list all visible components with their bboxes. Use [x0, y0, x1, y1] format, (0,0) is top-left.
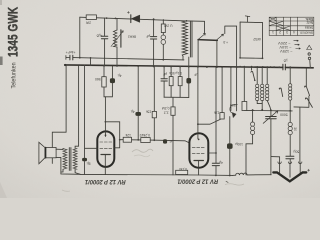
capacitor C9 blob on row: [163, 139, 167, 143]
switch S1 lever b: [217, 34, 224, 40]
wire speaker leads: [56, 149, 80, 174]
wire T2 primary bottom: [75, 169, 80, 174]
inductor L4: [257, 67, 262, 104]
capacitor C1 input series on thin rail: [70, 55, 73, 60]
wire right column: [294, 96, 309, 107]
wire bottom return rail: [80, 174, 232, 175]
tube V2 grid dashes: [192, 148, 204, 154]
wire vertical to C2: [104, 18, 106, 66]
inductor L2 small loops: [162, 33, 164, 60]
capacitor C14: [286, 156, 294, 159]
resistor R1 top inline: [86, 15, 96, 20]
inductor L5: [262, 67, 271, 110]
wire switch risers: [198, 40, 217, 68]
node: [106, 17, 108, 19]
wire V2 cathode lead: [198, 161, 200, 175]
node: [162, 59, 164, 61]
resistor R9 vertical: [171, 107, 175, 115]
plus mark near diode: [127, 11, 129, 13]
capacitor C6 blob electrolytic: [82, 158, 87, 161]
bus left end blob: [64, 64, 66, 66]
resistor R10 vertical: [220, 113, 224, 119]
wire cathode branch: [85, 65, 98, 174]
inductor L1 iron core tuned: [113, 30, 117, 47]
wire short link: [90, 58, 92, 66]
wire link upper right: [225, 26, 237, 66]
node bus: [289, 66, 291, 68]
wire V1 cathode lead: [104, 155, 106, 175]
wire P1 right riser: [236, 67, 238, 110]
node on thin rail: [79, 57, 81, 59]
antenna rail: [240, 21, 262, 24]
node: [197, 123, 199, 125]
wire group bottoms: [164, 97, 189, 107]
resistor R7 inline: [141, 138, 150, 143]
wire T2 sec top to speaker: [61, 149, 63, 173]
switch S1 lever a: [198, 33, 205, 39]
resistor R3 560 vertical: [104, 66, 105, 97]
inductor L6 labelled 30: [289, 111, 291, 156]
chassis ground chevron: [273, 172, 306, 181]
wire C5 legs: [105, 66, 112, 97]
node: [153, 139, 155, 141]
resistor R8 0.1M inline: [176, 170, 188, 174]
resistor R4 vertical: [153, 67, 155, 141]
fuse plug symbol: [307, 45, 312, 49]
node bus: [273, 66, 275, 68]
node: [215, 175, 217, 177]
voltage arrows: [294, 40, 301, 49]
capacitor C10 group below bus: [163, 67, 165, 98]
node: [229, 175, 231, 177]
node bus: [262, 66, 264, 68]
wire long vertical a: [239, 22, 241, 58]
wire grid branch: [198, 119, 221, 124]
tube V2 RV12P2000 envelope: [189, 133, 208, 167]
capacitor C11: [215, 67, 217, 175]
switch S3 right levers: [305, 68, 307, 86]
resistor R2 vertical with coil: [162, 20, 164, 24]
table X marks: [270, 21, 284, 25]
switch S2a lever: [251, 71, 255, 80]
transformer T1 core: [190, 21, 192, 57]
wire top rail: [80, 17, 205, 34]
tube V2 cathode bar: [194, 160, 203, 162]
resistor R6 inline: [123, 137, 131, 142]
capacitor C12 blob electrolytic: [227, 143, 233, 149]
wire right stub feed: [299, 107, 301, 163]
bottom-left dark corner shading: [0, 182, 7, 198]
wire P1 top: [230, 67, 232, 110]
left edge smudge: [0, 57, 3, 66]
wire T2 primary top riser: [75, 65, 79, 148]
wire vertical to L1: [116, 18, 118, 66]
switch S2b lever pair: [279, 88, 282, 97]
capacitor C8 blob: [186, 78, 191, 84]
tick at thin rail open end: [65, 56, 67, 60]
inductor L3 lower left coil: [246, 110, 253, 175]
faint pencil scribble a: [132, 149, 153, 152]
tube V1 cathode bar: [101, 154, 110, 156]
wire long vertical b: [262, 23, 264, 59]
tube V1 top grid dot: [105, 134, 107, 136]
transformer T2 primary: [73, 149, 77, 170]
wire V2 grid riser: [197, 67, 199, 139]
resistor R5a vertical: [170, 67, 172, 98]
wire T1 primary bottom lead: [182, 56, 184, 60]
node: [270, 109, 272, 111]
wire C12 legs: [229, 117, 231, 176]
node: [153, 18, 155, 20]
capacitor C4 mains series on bus: [283, 64, 285, 70]
faint mark bottom left: [62, 190, 70, 191]
inductor L7 choke bumps: [233, 173, 272, 175]
transformer T2 secondary: [63, 149, 67, 170]
wire ground stubs: [280, 163, 301, 177]
main HT bus wire: [65, 65, 314, 68]
node: [137, 139, 139, 141]
wire vertical to C3: [153, 19, 155, 66]
speaker LS1 driver: [45, 148, 56, 158]
wire C8 legs: [188, 67, 190, 98]
node: [309, 67, 311, 69]
antenna A1: [245, 16, 250, 22]
wire grid T junction: [105, 122, 119, 148]
tuning capacitor C13: [270, 110, 272, 175]
wire left stub feed: [271, 157, 280, 163]
wire vertical antenna branch: [79, 17, 81, 58]
capacitor C2: [101, 36, 107, 39]
top-left corner mark: [0, 0, 2, 5]
transformer T2 core: [69, 148, 71, 171]
tick mark under rail: [226, 181, 229, 182]
node: [105, 121, 107, 123]
inductor L6a upper right: [289, 67, 291, 111]
wire V1 grid chain: [104, 97, 106, 137]
capacitor C5 blob: [110, 78, 115, 83]
capacitor C3: [151, 37, 157, 39]
potentiometer P1: [230, 105, 237, 114]
resistor R5b vertical: [179, 67, 181, 97]
voltage selector table frame: [269, 17, 314, 35]
wire T1 secondary lead: [188, 57, 190, 67]
node: [90, 57, 92, 59]
diode D1 detector: [130, 15, 132, 23]
faint pencil scribble b: [225, 184, 244, 185]
transformer T1 primary winding: [182, 21, 187, 56]
node bus: [251, 66, 253, 68]
capacitor C7 blob: [135, 112, 141, 116]
speaker LS1 cone: [39, 142, 45, 164]
node bus: [239, 66, 241, 68]
tube V1 RV12P2000 envelope: [97, 131, 114, 167]
node bus: [270, 66, 272, 68]
wire bus to speaker branch: [52, 65, 66, 163]
node: [289, 110, 291, 112]
tube V2 top grid dot: [198, 139, 200, 141]
switch S1 wave band bar: [198, 39, 217, 42]
ground terminal dots: [278, 162, 281, 164]
wire resistor row: [120, 140, 190, 143]
node: [115, 18, 117, 20]
wire mid horizontal: [244, 109, 292, 112]
wire V1 anode riser: [137, 66, 139, 140]
node bus: [278, 66, 280, 68]
plus mark: [308, 169, 310, 171]
node bus group left: [79, 64, 238, 68]
tube V1 grid dashes: [100, 142, 112, 148]
wire V2 anode lead: [208, 152, 216, 154]
wire AVC rail thin: [66, 57, 263, 60]
